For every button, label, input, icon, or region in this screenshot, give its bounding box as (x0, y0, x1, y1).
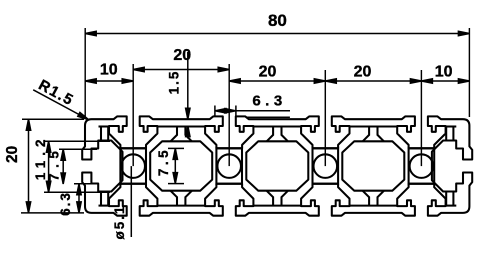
svg-text:7.5: 7.5 (156, 147, 171, 176)
svg-text:6.3: 6.3 (252, 92, 286, 109)
svg-text:20: 20 (259, 64, 277, 81)
extension line slot 3 center (324, 70, 326, 166)
svg-text:10: 10 (435, 64, 453, 81)
svg-text:6.3: 6.3 (58, 191, 73, 216)
web left end top (99, 125, 110, 127)
web left end bottom (99, 205, 110, 207)
web right end top (446, 125, 457, 127)
web I-beam top W1 (157, 125, 205, 127)
extension line right edge (468, 28, 470, 117)
dimension 20 overall height (28, 119, 30, 213)
web right end bottom (446, 205, 457, 207)
web I-beam bottom W3b (350, 205, 398, 207)
dimension 7.5 end slot height (62, 149, 64, 184)
svg-text:20: 20 (4, 146, 21, 163)
hole chamber walls C2 (216, 148, 242, 183)
dimension 20 slots 3-4 (325, 80, 421, 82)
dimension 20 slots 1-2 (133, 69, 229, 71)
leader dia 5.1 hole (130, 166, 132, 237)
web I-beam top W3 (350, 125, 398, 127)
hole H3 (dia 5.1) (314, 154, 338, 178)
dimension 11.2 end cavity height (48, 141, 50, 192)
hole H1 (dia 5.1) (121, 154, 145, 178)
web I-beam bottom W2b (253, 205, 301, 207)
dimension 6.3 slot opening (215, 110, 290, 112)
web I-beam top W2 (253, 125, 301, 127)
dimension 80 overall width (85, 33, 469, 35)
cavity octagon O2 (246, 141, 308, 190)
extension line slot 2 center (228, 64, 230, 166)
svg-text:1.5: 1.5 (167, 70, 182, 95)
hole H2 (dia 5.1) (217, 154, 241, 178)
extension line slot 4 center (420, 70, 422, 166)
hole chamber walls C3 (313, 148, 339, 183)
svg-text:ø5.1: ø5.1 (112, 204, 127, 239)
web I-beam bottom W1b (157, 205, 205, 207)
leader R1.5 corner radius (33, 90, 88, 120)
svg-text:20: 20 (354, 64, 372, 81)
svg-text:10: 10 (100, 62, 118, 79)
dimension 6.3 bottom left (78, 184, 80, 213)
extension line slot 1 center (132, 64, 134, 166)
extension line left edge (84, 28, 86, 117)
svg-text:20: 20 (173, 47, 191, 64)
cavity octagon O1 (150, 141, 212, 190)
profile outline (82, 116, 472, 215)
dimension 10 right (421, 80, 469, 82)
dimension 10 left (85, 80, 133, 82)
dimension 7.5 cavity slot depth span (174, 148, 176, 183)
hole H4 (dia 5.1) (410, 154, 434, 178)
cavity octagon O3 (342, 141, 404, 190)
dimension 1.5 lip depth (187, 52, 189, 119)
svg-text:80: 80 (268, 11, 287, 30)
hole chamber walls C1 (120, 148, 146, 183)
dimension 20 slots 2-3 (229, 80, 325, 82)
svg-text:7.5: 7.5 (46, 146, 61, 181)
hole chamber walls C4 (409, 148, 435, 183)
